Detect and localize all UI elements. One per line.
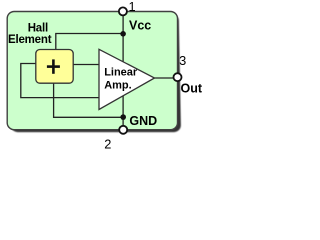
svg-text:Vcc: Vcc [129, 19, 151, 33]
svg-text:Linear: Linear [104, 67, 138, 79]
svg-text:1: 1 [129, 0, 136, 14]
svg-text:GND: GND [129, 114, 157, 128]
svg-text:Amp.: Amp. [104, 79, 132, 91]
svg-text:Hall: Hall [28, 22, 48, 34]
svg-text:Out: Out [181, 82, 203, 96]
svg-text:Element: Element [8, 34, 52, 46]
svg-text:2: 2 [104, 137, 111, 152]
svg-text:3: 3 [179, 53, 186, 68]
